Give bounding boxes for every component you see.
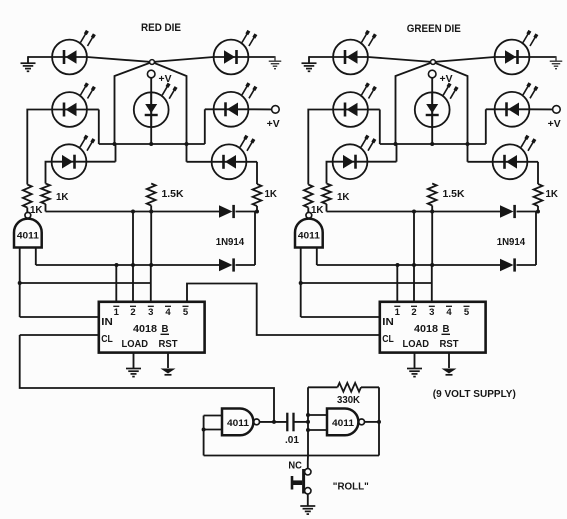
- node crossover: [431, 60, 436, 65]
- LED middle-left (green die): [333, 83, 375, 127]
- label 1N914: [497, 237, 526, 248]
- svg-text:CL: CL: [382, 334, 394, 345]
- ground: [550, 61, 563, 68]
- junction: [113, 142, 117, 146]
- junction: [412, 210, 416, 214]
- svg-text:2: 2: [130, 307, 135, 318]
- counter 4018B (green die): [380, 302, 486, 353]
- wire loop bottom: [204, 455, 379, 457]
- wire: [246, 162, 257, 184]
- label 1N914: [216, 237, 245, 248]
- wire: [396, 57, 495, 144]
- pin labels 1-5 with overbars: [394, 306, 470, 318]
- wire: [431, 206, 433, 212]
- svg-text:330K: 330K: [337, 395, 361, 406]
- wire loop top: [308, 386, 338, 388]
- wire: [249, 56, 276, 60]
- junction: [306, 420, 310, 424]
- +V terminal: [147, 70, 155, 78]
- svg-text:1: 1: [395, 307, 401, 318]
- label NC: [288, 461, 302, 472]
- wire: [87, 144, 116, 162]
- wire loop right: [378, 387, 380, 455]
- junction: [377, 420, 381, 424]
- label +V: [267, 119, 280, 130]
- +V terminal: [272, 106, 280, 114]
- svg-text:1.5K: 1.5K: [162, 189, 185, 200]
- wire: [368, 57, 468, 144]
- label 1K: [56, 192, 69, 203]
- svg-text:3: 3: [148, 307, 153, 318]
- wire feedback-loop left: [307, 387, 309, 455]
- junction: [536, 210, 540, 214]
- svg-text:+V: +V: [440, 74, 453, 85]
- wire: [537, 206, 539, 212]
- svg-text:+V: +V: [548, 119, 561, 130]
- label IN: [101, 317, 113, 328]
- wire pin5 to green CL: [187, 284, 380, 336]
- junction: [394, 142, 398, 146]
- wire: [448, 353, 450, 368]
- junction: [115, 263, 119, 267]
- junction: [255, 210, 259, 214]
- wire: [45, 204, 47, 212]
- label RST: [159, 339, 178, 350]
- svg-text:1N914: 1N914: [497, 237, 526, 248]
- junction: [131, 263, 135, 267]
- wire: [236, 212, 256, 266]
- junction: [149, 142, 153, 146]
- svg-text:1.5K: 1.5K: [443, 189, 466, 200]
- label 9 VOLT SUPPLY: [433, 389, 516, 400]
- pushbutton ROLL: [292, 469, 304, 494]
- wire clock feed: [20, 335, 274, 422]
- LED center (green die): [415, 84, 457, 128]
- wire: [431, 212, 433, 266]
- svg-text:5: 5: [464, 307, 470, 318]
- svg-text:3: 3: [429, 307, 434, 318]
- wire: [99, 143, 205, 145]
- svg-text:(9 VOLT SUPPLY): (9 VOLT SUPPLY): [433, 389, 516, 400]
- svg-text:.01: .01: [285, 435, 299, 446]
- wire: [150, 212, 152, 266]
- svg-text:4011: 4011: [332, 418, 355, 429]
- wire: [308, 110, 333, 185]
- wire: [486, 109, 495, 144]
- resistor 1.5K (red center): [147, 184, 156, 206]
- ground: [302, 63, 317, 71]
- wire: [327, 211, 501, 213]
- LED bottom-right (green die): [493, 136, 535, 180]
- wire: [150, 265, 152, 302]
- label 1K: [546, 189, 559, 200]
- junction: [430, 142, 434, 146]
- diode 1N914 (green lower): [500, 258, 515, 271]
- wire: [530, 56, 557, 60]
- wire: [368, 144, 397, 162]
- resistor 1K (green right): [534, 184, 543, 206]
- junction: [202, 428, 206, 432]
- wire: [368, 110, 380, 145]
- resistor 1K (red right): [253, 184, 262, 206]
- wire IN: [20, 316, 99, 318]
- wire: [468, 144, 493, 162]
- svg-text:1K: 1K: [30, 205, 43, 216]
- svg-text:NC: NC: [288, 461, 302, 472]
- svg-text:LOAD: LOAD: [403, 339, 430, 350]
- +V terminal: [553, 106, 561, 114]
- pin labels 1-5 with overbars: [113, 306, 189, 318]
- resistor 1K (green left): [322, 184, 331, 205]
- wire: [167, 353, 169, 368]
- label ROLL: [333, 482, 369, 493]
- ground: [407, 369, 422, 377]
- svg-text:4018: 4018: [133, 324, 157, 335]
- wire: [115, 57, 214, 144]
- wire: [132, 212, 134, 266]
- junction: [149, 263, 153, 267]
- LED center (red die): [134, 84, 176, 128]
- NAND gate 4011 (oscillator right): [327, 409, 365, 436]
- wire loop top right: [361, 386, 379, 388]
- junction: [299, 281, 303, 285]
- label 4018 B: [414, 324, 450, 335]
- svg-text:4011: 4011: [227, 418, 250, 429]
- junction: [18, 281, 22, 285]
- wire: [115, 265, 117, 302]
- label RST: [440, 339, 459, 350]
- wire: [187, 144, 212, 162]
- counter 4018B (red die): [99, 302, 205, 353]
- junction: [466, 142, 470, 146]
- wire: [307, 208, 309, 213]
- svg-text:RST: RST: [159, 339, 178, 350]
- wire: [294, 421, 309, 423]
- label 1K: [30, 205, 43, 216]
- NAND gate 4011 (red die): [14, 212, 42, 247]
- resistor 1K (red left): [41, 184, 50, 205]
- wire: [28, 56, 52, 62]
- wire: [380, 143, 486, 145]
- ground: [269, 61, 282, 68]
- gate input leg: [35, 248, 37, 266]
- gate input leg: [19, 248, 21, 318]
- wire: [527, 162, 538, 184]
- ground: [300, 506, 315, 514]
- svg-text:CL: CL: [101, 334, 113, 345]
- junction: [412, 263, 416, 267]
- node crossover: [150, 60, 155, 65]
- wire: [326, 204, 328, 212]
- ground: [442, 369, 457, 375]
- svg-text:LOAD: LOAD: [122, 339, 149, 350]
- NAND gate 4011 (green die): [295, 212, 323, 247]
- LED top-right (green die): [495, 31, 537, 75]
- wire: [20, 282, 151, 284]
- LED top-right (red die): [214, 31, 256, 75]
- label .01: [285, 435, 299, 446]
- LED middle-left (red die): [52, 83, 94, 127]
- svg-text:IN: IN: [101, 317, 113, 328]
- wire: [132, 265, 134, 302]
- junction: [306, 413, 310, 417]
- svg-text:+V: +V: [159, 74, 172, 85]
- wire: [236, 211, 258, 213]
- label +V: [548, 119, 561, 130]
- svg-text:1K: 1K: [265, 189, 278, 200]
- resistor 1K (red far-left): [23, 185, 32, 208]
- svg-text:RED DIE: RED DIE: [141, 22, 181, 34]
- label 1.5K: [443, 189, 466, 200]
- label +V: [159, 74, 172, 85]
- wire: [249, 108, 272, 110]
- junction: [430, 210, 434, 214]
- wire: [301, 282, 432, 284]
- gate input leg: [316, 248, 318, 266]
- label 330K: [337, 395, 361, 406]
- wire: [307, 494, 309, 506]
- wire: [431, 265, 433, 302]
- diode 1N914 (green upper): [500, 205, 515, 218]
- svg-text:IN: IN: [382, 317, 394, 328]
- wire: [27, 110, 52, 185]
- svg-text:4011: 4011: [17, 231, 40, 242]
- wire gate inputs: [204, 416, 222, 456]
- svg-text:4: 4: [165, 307, 171, 318]
- svg-text:1K: 1K: [311, 205, 324, 216]
- label 1K: [337, 192, 350, 203]
- junction: [149, 210, 153, 214]
- wire: [413, 265, 415, 302]
- wire: [46, 211, 220, 213]
- svg-text:1: 1: [114, 307, 120, 318]
- svg-text:1N914: 1N914: [216, 237, 245, 248]
- svg-text:4011: 4011: [298, 231, 321, 242]
- wire NC tap: [307, 456, 309, 469]
- LED top-left (red die): [52, 31, 94, 75]
- switch contact: [305, 488, 311, 494]
- wire: [396, 265, 398, 302]
- LED top-left (green die): [333, 31, 375, 75]
- svg-text:GREEN DIE: GREEN DIE: [407, 23, 461, 35]
- svg-text:"ROLL": "ROLL": [333, 482, 369, 493]
- ground: [161, 369, 176, 375]
- label GREEN DIE: [407, 23, 461, 35]
- svg-text:B: B: [162, 324, 169, 335]
- wire IN: [301, 316, 380, 318]
- wire gate2 inputs: [308, 415, 327, 430]
- ground: [21, 63, 36, 71]
- label 4011: [332, 418, 355, 429]
- wire: [133, 353, 135, 368]
- wire: [317, 264, 500, 266]
- wire output: [260, 421, 287, 423]
- ground: [126, 369, 141, 377]
- svg-text:2: 2: [411, 307, 416, 318]
- svg-text:RST: RST: [440, 339, 459, 350]
- resistor 1.5K (green center): [428, 184, 437, 206]
- junction: [131, 210, 135, 214]
- wire: [517, 211, 539, 213]
- NAND gate 4011 (oscillator left): [222, 409, 260, 436]
- label IN: [382, 317, 394, 328]
- svg-text:1K: 1K: [337, 192, 350, 203]
- LED middle-right (green die): [495, 83, 537, 127]
- wire: [309, 56, 333, 62]
- LED bottom-left (green die): [333, 136, 375, 180]
- wire CL (red): [20, 334, 99, 336]
- wire: [150, 78, 152, 144]
- diode 1N914 (red upper): [219, 205, 234, 218]
- junction: [272, 420, 276, 424]
- svg-text:1K: 1K: [546, 189, 559, 200]
- LED bottom-right (red die): [212, 136, 254, 180]
- label 4011: [17, 231, 40, 242]
- wire: [26, 208, 28, 213]
- label +V: [440, 74, 453, 85]
- label CL: [382, 334, 394, 345]
- wire: [414, 353, 416, 368]
- junction: [306, 428, 310, 432]
- wire: [530, 108, 553, 110]
- svg-text:4018: 4018: [414, 324, 438, 335]
- diode 1N914 (red lower): [219, 258, 234, 271]
- label LOAD: [403, 339, 430, 350]
- resistor 1K (green far-left): [304, 185, 313, 208]
- label 4011: [298, 231, 321, 242]
- wire: [256, 206, 258, 212]
- wire: [87, 110, 99, 145]
- switch contact: [305, 469, 311, 475]
- gate input leg: [300, 248, 302, 318]
- +V terminal: [428, 70, 436, 78]
- label RED DIE: [141, 22, 181, 34]
- wire: [327, 162, 333, 184]
- label CL: [101, 334, 113, 345]
- label 1K: [311, 205, 324, 216]
- label 4018 B: [133, 324, 169, 335]
- wire: [36, 264, 219, 266]
- junction: [430, 263, 434, 267]
- wire: [150, 206, 152, 212]
- svg-text:5: 5: [183, 307, 189, 318]
- label 4011: [227, 418, 250, 429]
- label 1.5K: [162, 189, 185, 200]
- wire: [431, 78, 433, 144]
- wire: [205, 109, 214, 144]
- svg-text:+V: +V: [267, 119, 280, 130]
- wire: [46, 162, 52, 184]
- svg-text:B: B: [443, 324, 450, 335]
- junction: [185, 142, 189, 146]
- wire: [413, 212, 415, 266]
- resistor 330K: [338, 383, 362, 392]
- wire gate2 output: [365, 421, 379, 423]
- junction: [396, 263, 400, 267]
- LED bottom-left (red die): [52, 136, 94, 180]
- LED middle-right (red die): [214, 83, 256, 127]
- svg-text:4: 4: [446, 307, 452, 318]
- wire: [87, 57, 187, 144]
- capacitor .01: [287, 413, 293, 432]
- wire: [517, 212, 537, 266]
- label LOAD: [122, 339, 149, 350]
- label 1K: [265, 189, 278, 200]
- svg-text:1K: 1K: [56, 192, 69, 203]
